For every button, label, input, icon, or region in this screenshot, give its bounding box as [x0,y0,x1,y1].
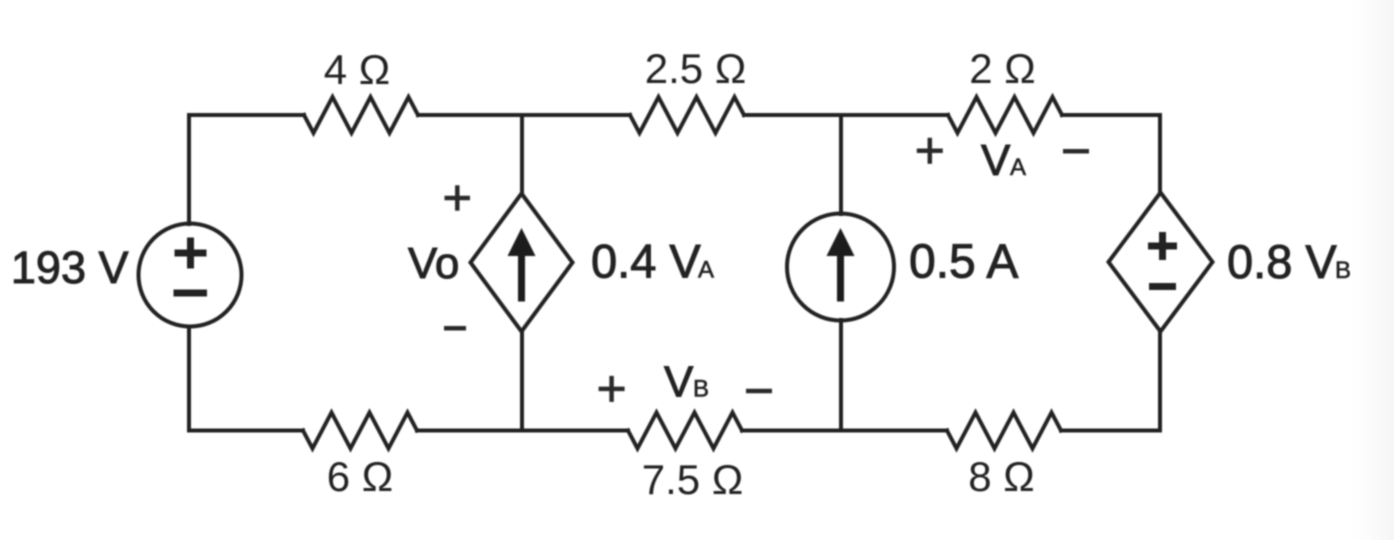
svg-text:A: A [698,257,714,284]
svg-text:V: V [981,136,1011,185]
wire node B branch top [839,115,843,214]
voltage source V1 circle [139,224,242,327]
wire node A branch top [520,115,524,194]
wire top rail left segment [189,115,304,224]
wire left branch bottom [189,327,303,431]
dependent voltage source U2 minus sign [1149,283,1176,290]
svg-text:Vo: Vo [408,239,459,288]
svg-text:0.8 V: 0.8 V [1227,235,1337,288]
right edge shading [1352,0,1394,540]
svg-text:B: B [1335,257,1351,284]
wire bottom rail between R4 and node A [417,429,628,433]
current source I1 arrow [827,228,855,302]
resistor R6 8ohm zigzag [947,413,1061,449]
dependent current source U1 diamond [471,194,573,332]
dependent voltage source U2 plus sign [1148,232,1177,260]
label VB minus sign [746,389,772,394]
resistor R4 6ohm zigzag [303,413,417,449]
wire bottom rail right corner [1061,331,1160,431]
wire bottom rail between R5 and node B [742,429,947,433]
label Vo minus sign [444,326,466,331]
svg-text:V: V [664,358,694,407]
wire node A branch bottom [520,331,524,431]
svg-text:2 Ω: 2 Ω [969,45,1035,92]
svg-text:193 V: 193 V [11,242,129,293]
voltage source V1 minus sign [174,290,208,297]
current source I1 circle [787,214,894,321]
dependent current source U1 arrow [508,228,536,302]
wire top rail between R1 and node A [418,113,630,117]
svg-text:7.5 Ω: 7.5 Ω [642,456,743,503]
svg-text:8 Ω: 8 Ω [968,453,1034,500]
wire top rail between R2 and node B [744,113,948,117]
label Vo plus sign [445,185,471,210]
svg-text:0.5 A: 0.5 A [909,236,1018,289]
svg-text:4 Ω: 4 Ω [324,46,390,93]
svg-text:0.4 V: 0.4 V [591,235,701,288]
svg-text:2.5 Ω: 2.5 Ω [645,45,746,92]
dependent voltage source U2 diamond [1109,193,1213,332]
svg-text:6 Ω: 6 Ω [327,453,393,500]
svg-text:A: A [1010,154,1026,181]
resistor R5 7.5ohm zigzag [628,413,742,449]
resistor R3 2ohm zigzag [948,97,1062,133]
label VA minus sign [1063,149,1089,154]
wire top rail right corner [1062,115,1160,194]
resistor R1 4ohm zigzag [304,97,418,133]
voltage source V1 plus sign [175,238,207,269]
label VB plus sign [599,376,625,402]
label VA plus sign [917,138,943,164]
resistor R2 2.5ohm zigzag [630,97,744,133]
svg-text:B: B [693,376,709,403]
wire node B branch bottom [839,320,843,431]
